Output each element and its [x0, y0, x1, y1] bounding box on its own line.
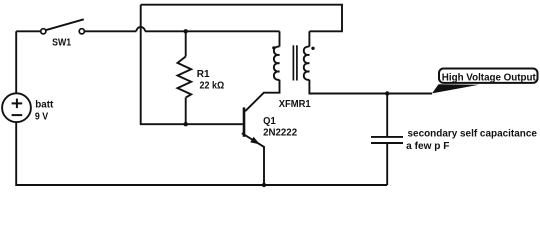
- svg-text:9 V: 9 V: [35, 111, 49, 122]
- svg-text:secondary self capacitance: secondary self capacitance: [408, 129, 538, 140]
- svg-text:a few p F: a few p F: [406, 141, 449, 152]
- svg-text:SW1: SW1: [52, 37, 71, 48]
- svg-text:22 kΩ: 22 kΩ: [200, 80, 225, 91]
- svg-text:2N2222: 2N2222: [263, 128, 297, 139]
- svg-text:R1: R1: [197, 69, 210, 80]
- svg-text:High Voltage Output: High Voltage Output: [442, 73, 537, 84]
- svg-text:batt: batt: [35, 99, 54, 110]
- svg-text:Q1: Q1: [263, 116, 276, 127]
- svg-text:XFMR1: XFMR1: [279, 99, 311, 110]
